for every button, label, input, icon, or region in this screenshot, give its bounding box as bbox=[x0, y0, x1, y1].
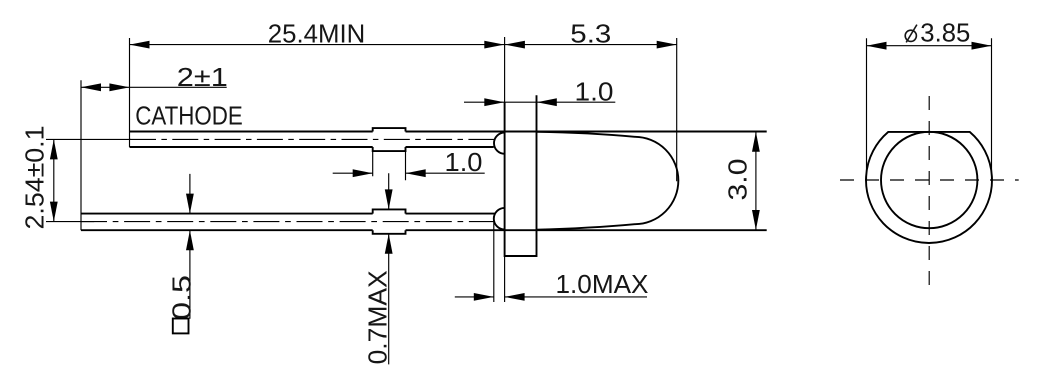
svg-text:3.85: 3.85 bbox=[920, 18, 970, 48]
svg-text:2±1: 2±1 bbox=[177, 62, 228, 92]
svg-text:5.3: 5.3 bbox=[570, 18, 611, 48]
svg-text:25.4MIN: 25.4MIN bbox=[268, 18, 366, 48]
svg-text:2.54±0.1: 2.54±0.1 bbox=[20, 126, 50, 230]
svg-text:1.0: 1.0 bbox=[575, 77, 614, 107]
svg-text:0.5: 0.5 bbox=[167, 275, 197, 320]
svg-text:3.0: 3.0 bbox=[723, 159, 753, 201]
svg-text:CATHODE: CATHODE bbox=[135, 101, 243, 131]
svg-text:0.7MAX: 0.7MAX bbox=[363, 270, 393, 364]
svg-text:1.0MAX: 1.0MAX bbox=[556, 269, 649, 299]
svg-text:1.0: 1.0 bbox=[445, 147, 483, 177]
